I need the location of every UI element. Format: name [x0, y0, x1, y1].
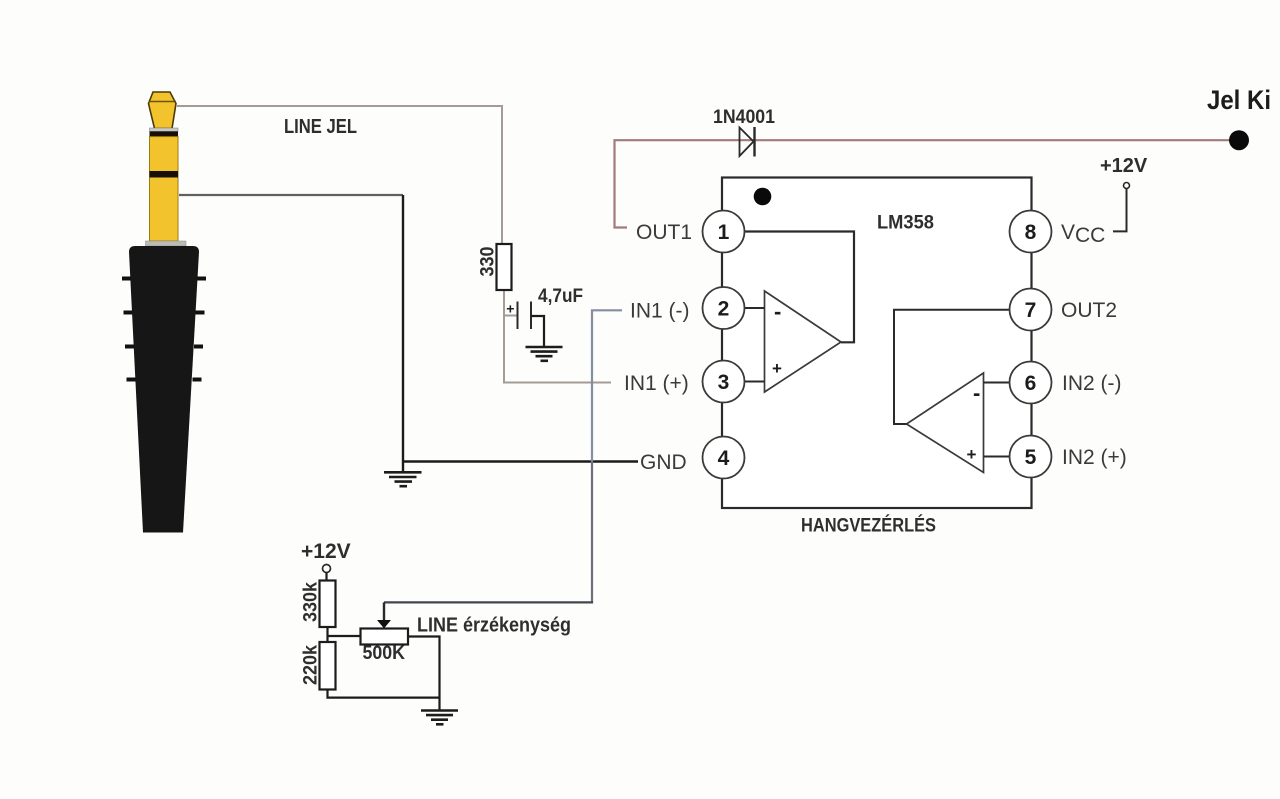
wiper arrowhead — [377, 620, 391, 628]
wire: ground corner to GND pin 4 — [403, 460, 638, 462]
pin 3 — [703, 361, 745, 403]
resistor R1 330 — [497, 244, 512, 290]
ground symbol (capacitor) — [526, 347, 563, 361]
svg-text:LINE JEL: LINE JEL — [284, 116, 357, 138]
wire +12V to VCC — [1113, 189, 1127, 231]
diode D1 cathode bar — [753, 127, 755, 157]
svg-text:-: - — [774, 299, 781, 324]
jack body ridges — [122, 279, 206, 380]
jack base plate — [146, 241, 187, 246]
svg-text:220k: 220k — [300, 645, 322, 685]
svg-text:3: 3 — [718, 371, 730, 394]
diode D1 1N4001 triangle — [740, 128, 754, 157]
wire: jack sleeve horizontal — [179, 194, 403, 196]
capacitor C1 plate + — [517, 302, 519, 330]
svg-text:+12V: +12V — [1100, 155, 1148, 177]
wire: wiper arrow stub — [383, 602, 385, 621]
wire pin5 to U1B — [984, 456, 1010, 458]
wire +12V circle to R2 — [325, 572, 327, 581]
wire pin6 to U1B — [984, 382, 1010, 384]
wire: cap to ground — [531, 316, 544, 347]
wire junction to pot left — [328, 635, 361, 637]
jack black ring 1 — [150, 131, 179, 136]
red wire: OUT1 to Jel Ki — [615, 140, 1240, 227]
wire: IN1(-) net to potentiometer wiper — [384, 601, 593, 603]
svg-text:330: 330 — [477, 246, 499, 276]
jack tip facet line — [149, 101, 177, 103]
svg-text:LM358: LM358 — [877, 212, 934, 234]
svg-text:IN2 (-): IN2 (-) — [1062, 372, 1122, 395]
wire: sleeve down to ground corner — [402, 195, 404, 472]
jack shaft — [150, 137, 179, 241]
svg-text:2: 2 — [718, 298, 730, 321]
svg-text:6: 6 — [1025, 372, 1037, 395]
wire: jack tip to R1 (LINE JEL net) — [177, 106, 502, 244]
wire: cap branch stub — [504, 315, 517, 317]
wire U1B output feedback to pin7 — [894, 310, 1010, 424]
potentiometer P1 500K body — [361, 629, 409, 645]
capacitor C1 plate - — [530, 302, 532, 330]
node Jel Ki dot — [1229, 130, 1249, 150]
svg-text:+12V: +12V — [301, 540, 351, 563]
svg-text:OUT1: OUT1 — [636, 221, 692, 244]
svg-text:5: 5 — [1025, 446, 1037, 469]
svg-text:1N4001: 1N4001 — [713, 107, 775, 128]
jack body — [129, 246, 199, 533]
wire: IN1(-) net mid run — [591, 462, 593, 603]
svg-text:-: - — [973, 381, 980, 406]
svg-text:IN1 (+): IN1 (+) — [624, 372, 689, 395]
resistor R2 330k — [320, 581, 336, 628]
op-amp U1B triangle — [907, 373, 984, 473]
jack black ring 2 — [150, 171, 179, 178]
pin 6 — [1010, 362, 1052, 404]
wire R3 bottom to ground run — [328, 690, 440, 698]
wire R2 to R3 junction — [326, 627, 328, 642]
wire: R1 bottom to IN1(+) — [504, 290, 611, 383]
resistor R3 220k — [320, 642, 336, 690]
IC U1 LM358 body — [722, 178, 1032, 509]
pin 8 — [1010, 211, 1052, 253]
svg-text:Jel Ki: Jel Ki — [1207, 85, 1271, 115]
pin 7 — [1010, 289, 1052, 331]
jack plug tip — [149, 92, 177, 129]
wire: IN1(-) net upper run — [592, 310, 622, 461]
svg-text:4,7uF: 4,7uF — [538, 286, 583, 307]
svg-text:+: + — [506, 301, 514, 317]
svg-text:OUT2: OUT2 — [1061, 299, 1117, 322]
+12V open terminal circle (bottom) — [323, 565, 331, 573]
svg-text:330k: 330k — [300, 582, 322, 622]
wire U1A output feedback to pin1 — [745, 232, 855, 343]
svg-text:8: 8 — [1025, 221, 1037, 244]
pin 2 — [703, 287, 745, 329]
jack silver band — [150, 128, 179, 131]
svg-text:+: + — [967, 445, 977, 464]
svg-text:500K: 500K — [363, 642, 406, 664]
svg-text:IN2 (+): IN2 (+) — [1062, 446, 1127, 469]
svg-text:GND: GND — [640, 451, 687, 474]
pin 5 — [1010, 436, 1052, 478]
+12V open terminal circle — [1124, 183, 1130, 189]
ground symbol (pot) — [421, 711, 458, 725]
pin 1 — [703, 211, 745, 253]
svg-text:4: 4 — [718, 447, 730, 470]
wire pot right to ground — [408, 637, 440, 711]
svg-text:HANGVEZÉRLÉS: HANGVEZÉRLÉS — [801, 515, 936, 537]
svg-text:IN1 (-): IN1 (-) — [630, 300, 690, 323]
pin 4 — [703, 437, 745, 479]
svg-text:+: + — [772, 359, 782, 378]
wire pin3 to U1A — [745, 381, 765, 383]
ground symbol (jack) — [384, 472, 422, 486]
svg-text:VCC: VCC — [1061, 221, 1105, 247]
op-amp U1A triangle — [765, 291, 842, 392]
pin 1 orientation dot — [754, 188, 772, 206]
svg-text:7: 7 — [1025, 299, 1037, 322]
wire pin2 to U1A — [745, 307, 765, 309]
svg-text:LINE érzékenység: LINE érzékenység — [417, 615, 571, 637]
svg-text:1: 1 — [718, 221, 730, 244]
